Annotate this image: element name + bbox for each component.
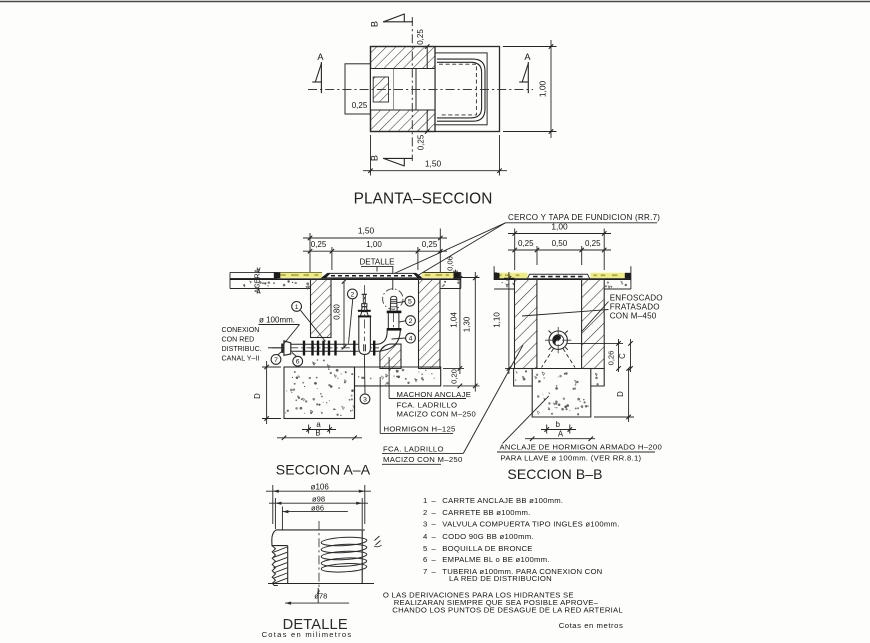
secB: black end right <box>625 273 631 279</box>
svg-text:1,30: 1,30 <box>462 316 471 332</box>
secB: right pit wall brick hatch <box>582 279 605 368</box>
svg-text:SECCION B–B: SECCION B–B <box>507 466 602 482</box>
plan: section marker A left <box>312 52 324 93</box>
svg-text:A: A <box>558 429 564 438</box>
svg-text:0,25: 0,25 <box>417 134 426 150</box>
det: baseline ground <box>268 583 374 585</box>
legend item 2 <box>423 508 531 517</box>
secB: sidewalk concrete right <box>604 281 631 289</box>
svg-text:0,25: 0,25 <box>416 29 425 45</box>
secB: pavement line right <box>630 266 632 289</box>
svg-text:DETALLE: DETALLE <box>360 257 395 266</box>
secA: circled 3 <box>360 394 370 404</box>
secA: black end block right <box>454 273 460 279</box>
svg-text:D: D <box>253 393 262 399</box>
secB: bottom dimension A <box>525 429 595 441</box>
enfoscado fratasado annotation <box>522 293 663 331</box>
secA: right dimension 1,04 <box>443 272 464 374</box>
svg-text:MACIZO CON M–250: MACIZO CON M–250 <box>383 455 463 464</box>
svg-text:0,06: 0,06 <box>446 256 455 271</box>
machon anclaje annotation <box>389 357 476 419</box>
secA: left dimension D <box>253 361 281 424</box>
secA: dimension row 0,25 1,00 0,25 <box>303 240 447 270</box>
secB: dimension 0,26 <box>568 339 624 372</box>
secA: valve centerline <box>363 285 365 341</box>
svg-text:PARA LLAVE ø 100mm. (VER RR.8.: PARA LLAVE ø 100mm. (VER RR.8.1) <box>501 453 642 462</box>
svg-text:0,26: 0,26 <box>606 351 615 366</box>
svg-text:1,00: 1,00 <box>538 81 548 98</box>
svg-text:B: B <box>370 155 380 161</box>
svg-text:FRATASADO: FRATASADO <box>610 302 660 311</box>
svg-text:0,50: 0,50 <box>552 239 568 248</box>
svg-text:5: 5 <box>408 299 412 306</box>
plan: section marker B top <box>370 14 414 28</box>
svg-text:–: – <box>432 567 437 576</box>
svg-text:CODO 90G BB ø100mm.: CODO 90G BB ø100mm. <box>442 532 533 541</box>
det: coupling centerline <box>318 521 320 592</box>
svg-text:1,04: 1,04 <box>449 312 458 328</box>
secB: left wall footing <box>514 369 533 387</box>
svg-text:Cotas en metros: Cotas en metros <box>559 621 624 630</box>
secB: bottom dimension b <box>541 420 576 434</box>
legend item 1 <box>423 496 563 505</box>
secA: pavement layer lines left <box>230 272 322 288</box>
svg-text:3: 3 <box>363 396 367 403</box>
svg-text:FCA. LADRILLO: FCA. LADRILLO <box>383 445 444 454</box>
svg-text:B: B <box>370 21 380 27</box>
svg-text:–: – <box>432 508 437 517</box>
plan: left connection stub <box>345 64 371 114</box>
secA: concrete bedding under pipe in wall gap <box>312 359 330 368</box>
svg-text:ø 100mm.: ø 100mm. <box>259 315 295 324</box>
secA: pavement lines right <box>422 272 461 288</box>
secA: incoming pipe tail <box>268 347 284 349</box>
plan: vertical section line B-B <box>411 17 413 161</box>
svg-text:–: – <box>432 532 437 541</box>
secB: yellow paving strip left <box>496 273 528 278</box>
svg-text:CON RED: CON RED <box>222 336 255 344</box>
secA: black end block left <box>274 273 281 279</box>
det: coil thread spring <box>321 536 367 573</box>
svg-text:3: 3 <box>423 520 427 529</box>
secA: foundation strip under pit <box>355 367 441 419</box>
svg-text:ø98: ø98 <box>312 495 325 504</box>
svg-text:CON M–450: CON M–450 <box>610 311 657 320</box>
conexion con red label <box>222 326 262 363</box>
svg-text:CERCO Y TAPA DE FUNDICION (RR.: CERCO Y TAPA DE FUNDICION (RR.7) <box>508 213 660 222</box>
svg-text:0,80: 0,80 <box>333 304 342 320</box>
secA: riser centerline <box>393 313 395 330</box>
secA: yellow paving strip right <box>422 273 454 278</box>
secB: dimension 1,10 left <box>493 272 515 374</box>
secA: cover slab (tapa) <box>322 273 422 278</box>
svg-text:1,50: 1,50 <box>425 159 442 169</box>
svg-text:BOQUILLA DE BRONCE: BOQUILLA DE BRONCE <box>442 544 532 553</box>
secB: cover frame and tapa <box>528 274 590 278</box>
svg-text:1,10: 1,10 <box>493 312 502 328</box>
secA: right dimension 0,20 <box>449 369 462 388</box>
plan: horizontal centerline <box>308 89 533 91</box>
det: dimension dia 106 <box>266 482 371 524</box>
secA: elbow codo 90 <box>377 331 401 351</box>
secA: right pit wall brick hatch <box>419 279 441 368</box>
secA: leader to item 3 <box>363 355 366 394</box>
svg-text:ANCLAJE DE HORMIGON ARMADO H–2: ANCLAJE DE HORMIGON ARMADO H–200 <box>500 442 663 451</box>
legend note derivaciones <box>383 591 623 615</box>
secB: dimension D <box>594 366 634 422</box>
svg-text:D: D <box>616 391 625 397</box>
secA: bell empalme <box>282 341 291 356</box>
svg-text:EMPALME BL o BE ø100mm.: EMPALME BL o BE ø100mm. <box>442 555 549 564</box>
svg-text:B: B <box>315 429 320 438</box>
legend item 7 <box>423 567 602 583</box>
svg-text:0,25: 0,25 <box>422 240 438 249</box>
secA: pipe centerline <box>272 347 379 349</box>
svg-text:CANAL Y–II: CANAL Y–II <box>222 355 260 363</box>
svg-text:A: A <box>317 52 324 62</box>
svg-text:CARRTE ANCLAJE BB ø100mm.: CARRTE ANCLAJE BB ø100mm. <box>442 496 563 505</box>
svg-text:7: 7 <box>274 357 278 364</box>
svg-text:–: – <box>432 555 437 564</box>
plan: dimension 0,25 top <box>416 29 429 49</box>
svg-text:SECCION A–A: SECCION A–A <box>276 462 371 478</box>
secB: pipe section symbol <box>545 327 572 354</box>
secA: ACERA label <box>253 268 262 294</box>
svg-text:CARRETE BB ø100mm.: CARRETE BB ø100mm. <box>442 508 530 517</box>
plan: hydrant outline rounded pipe <box>437 59 485 121</box>
plan: section marker A right <box>519 52 531 93</box>
svg-text:PLANTA–SECCION: PLANTA–SECCION <box>354 191 493 208</box>
svg-text:1: 1 <box>423 496 427 505</box>
diameter 100mm label with leader <box>259 315 300 345</box>
secA: pipe tube horizontal <box>291 344 377 351</box>
svg-text:MACHON ANCLAJE: MACHON ANCLAJE <box>397 390 472 399</box>
secA: sidewalk concrete left <box>230 280 311 290</box>
secB: dimension 1,00 top <box>508 221 611 270</box>
svg-text:–: – <box>432 520 437 529</box>
svg-text:ø78: ø78 <box>314 592 327 601</box>
det: dimension dia 98 <box>269 495 368 529</box>
scan top border line <box>0 1 870 3</box>
secA: 0,06 cover thickness label <box>446 256 459 278</box>
callout CERCO Y TAPA DE FUNDICION (RR.7) <box>391 213 660 276</box>
secB: black end left <box>495 273 500 279</box>
svg-text:FCA. LADRILLO: FCA. LADRILLO <box>397 401 458 410</box>
det: dimension dia 86 <box>282 504 347 530</box>
svg-text:1,00: 1,00 <box>551 221 568 231</box>
plan: hatched masonry block <box>371 47 436 132</box>
secA: dimension 0,80 inside pit <box>333 279 347 349</box>
secA: right dimension 1,30 <box>443 272 480 392</box>
svg-text:CHANDO LOS PUNTOS DE DESAGUE D: CHANDO LOS PUNTOS DE DESAGUE DE LA RED A… <box>392 606 623 615</box>
secA: bottom dimension B <box>277 429 362 441</box>
svg-text:VALVULA COMPUERTA TIPO INGLES: VALVULA COMPUERTA TIPO INGLES ø100mm. <box>442 520 619 529</box>
svg-text:1,00: 1,00 <box>366 240 382 249</box>
det: coupling body <box>272 530 365 584</box>
svg-text:–: – <box>432 496 437 505</box>
svg-text:0,25: 0,25 <box>518 239 534 248</box>
secB: dimension C <box>618 339 633 372</box>
secA: left pit wall brick hatch <box>311 279 332 337</box>
svg-text:b: b <box>556 420 561 429</box>
svg-text:1,50: 1,50 <box>358 226 375 236</box>
svg-text:0,20: 0,20 <box>449 369 458 384</box>
secA: yellow paving strip left <box>278 273 323 278</box>
anclaje de hormigon annotation <box>497 396 662 462</box>
svg-text:0,25: 0,25 <box>352 101 368 110</box>
secB: chamber floor line <box>537 368 582 370</box>
secA: circled item numbers with leaders <box>292 302 326 342</box>
svg-text:ø106: ø106 <box>311 482 330 491</box>
secA: foundation big block hormigon <box>284 367 355 419</box>
det: dimension dia 78 <box>285 588 349 605</box>
secA: riser flanges <box>387 312 402 329</box>
secA: machon anclaje hatched block <box>380 344 401 368</box>
svg-text:2: 2 <box>351 291 355 298</box>
secB: dashed pipe cone lines <box>542 349 576 368</box>
plan: dimension 1,50 bottom <box>363 135 507 176</box>
secA: bottom dimension a <box>302 420 336 434</box>
svg-text:DISTRIBUC.: DISTRIBUC. <box>222 345 262 353</box>
svg-text:MACIZO CON M–250: MACIZO CON M–250 <box>397 410 477 419</box>
secA: riser tube <box>387 313 400 331</box>
det: angle mark <box>374 536 382 547</box>
plan: dimension 0,25 bottom of plan <box>417 129 430 150</box>
fca ladrillo annotation lower <box>382 345 523 464</box>
secB: ground surface line <box>494 278 631 280</box>
svg-text:CONEXION: CONEXION <box>222 326 260 334</box>
secB: right wall footing <box>591 369 604 387</box>
plan: outer box of chamber <box>371 47 500 132</box>
secB: left pit wall brick hatch <box>515 279 537 368</box>
svg-text:7: 7 <box>423 567 427 576</box>
secA: ground surface line <box>230 278 461 280</box>
secA: dimension 1,50 top <box>303 226 447 272</box>
svg-text:LA RED DE DISTRIBUCION: LA RED DE DISTRIBUCION <box>449 574 552 583</box>
plan: section marker B bottom <box>370 155 413 166</box>
legend item 4 <box>423 532 534 541</box>
svg-text:4: 4 <box>409 336 413 343</box>
legend item 5 <box>423 544 533 553</box>
secA: detail dash-dot circle <box>383 289 403 309</box>
secA: sidewalk concrete right <box>441 281 461 289</box>
svg-text:HORMIGON H–125: HORMIGON H–125 <box>384 425 456 434</box>
svg-text:6: 6 <box>423 555 427 564</box>
secA: DETALLE label with leader <box>360 257 395 290</box>
secA: flange bars on pipe <box>304 341 374 356</box>
legend item 3 <box>423 520 620 529</box>
svg-text:5: 5 <box>423 544 427 553</box>
svg-text:A: A <box>524 52 531 62</box>
svg-text:ENFOSCADO: ENFOSCADO <box>610 293 663 302</box>
secA: gate valve body <box>359 317 371 354</box>
secB: dimension row 0,25 0,50 0,25 <box>508 239 611 265</box>
det: left thread hatch <box>274 547 288 583</box>
svg-text:2: 2 <box>409 318 413 325</box>
legend item 6 <box>423 555 550 564</box>
svg-text:4: 4 <box>423 532 428 541</box>
secB: pavement lines left <box>494 266 497 280</box>
svg-text:–: – <box>432 544 437 553</box>
secA: valve bonnet and stem <box>358 294 371 316</box>
hormigon H-125 annotation <box>380 377 455 434</box>
svg-text:6: 6 <box>296 359 300 366</box>
svg-text:C: C <box>618 353 627 359</box>
plan: hidden dashed square <box>439 64 476 115</box>
svg-text:Cotas en milimetros: Cotas en milimetros <box>262 630 353 639</box>
plan: dimension 1,00 right <box>503 40 557 138</box>
secB: central anchor concrete block <box>532 369 591 418</box>
svg-text:O: O <box>383 591 389 600</box>
secB: yellow paving strip right <box>591 273 626 278</box>
svg-text:0,25: 0,25 <box>311 240 327 249</box>
secA: boquilla nozzle <box>390 296 397 311</box>
svg-text:0,25: 0,25 <box>585 239 601 248</box>
svg-text:2: 2 <box>423 508 427 517</box>
secB: sidewalk concrete left <box>494 282 514 289</box>
det: threaded left edge <box>272 546 278 586</box>
plan: inner box around hydrant <box>435 53 487 125</box>
svg-text:1: 1 <box>295 304 299 311</box>
